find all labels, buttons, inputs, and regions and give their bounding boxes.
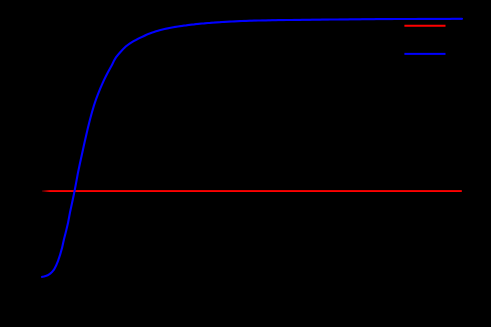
blue sigmoid curve [42,19,462,277]
legend red line sample [404,25,445,27]
legend blue line sample [404,53,445,55]
red threshold line [42,190,462,192]
